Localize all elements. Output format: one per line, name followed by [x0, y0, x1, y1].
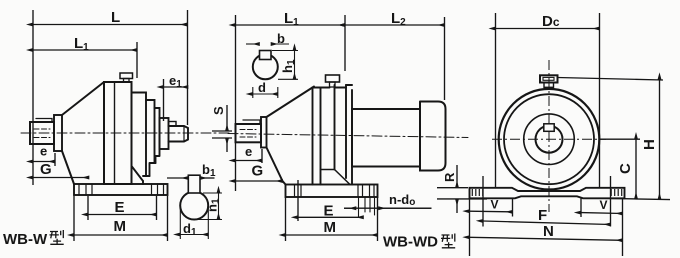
svg-text:R: R	[442, 172, 457, 182]
svg-text:e: e	[40, 144, 47, 159]
svg-text:M: M	[324, 219, 337, 236]
svg-text:e1: e1	[169, 73, 182, 90]
svg-text:L1: L1	[74, 35, 89, 53]
svg-text:L2: L2	[391, 10, 406, 28]
svg-text:G: G	[40, 161, 52, 178]
svg-text:N: N	[543, 223, 554, 240]
svg-text:WB-W: WB-W	[3, 231, 48, 248]
svg-text:d: d	[258, 80, 266, 95]
svg-text:V: V	[491, 198, 499, 212]
svg-text:Dc: Dc	[542, 13, 560, 30]
svg-text:H: H	[641, 139, 658, 150]
svg-text:S: S	[211, 106, 226, 115]
svg-text:b1: b1	[202, 162, 216, 179]
svg-text:C: C	[617, 163, 634, 174]
svg-text:G: G	[252, 163, 264, 180]
svg-text:M: M	[114, 218, 127, 235]
svg-text:L: L	[111, 9, 120, 26]
svg-text:e: e	[245, 144, 252, 159]
svg-text:E: E	[115, 199, 125, 216]
svg-text:F: F	[538, 207, 547, 224]
svg-text:WB-WD: WB-WD	[383, 234, 438, 251]
svg-text:E: E	[324, 203, 334, 220]
svg-text:h1: h1	[280, 59, 297, 73]
svg-text:n-do: n-do	[389, 192, 415, 208]
svg-text:b: b	[277, 31, 285, 46]
svg-text:L1: L1	[284, 10, 299, 28]
svg-text:V: V	[600, 198, 608, 212]
svg-text:d1: d1	[183, 221, 197, 238]
